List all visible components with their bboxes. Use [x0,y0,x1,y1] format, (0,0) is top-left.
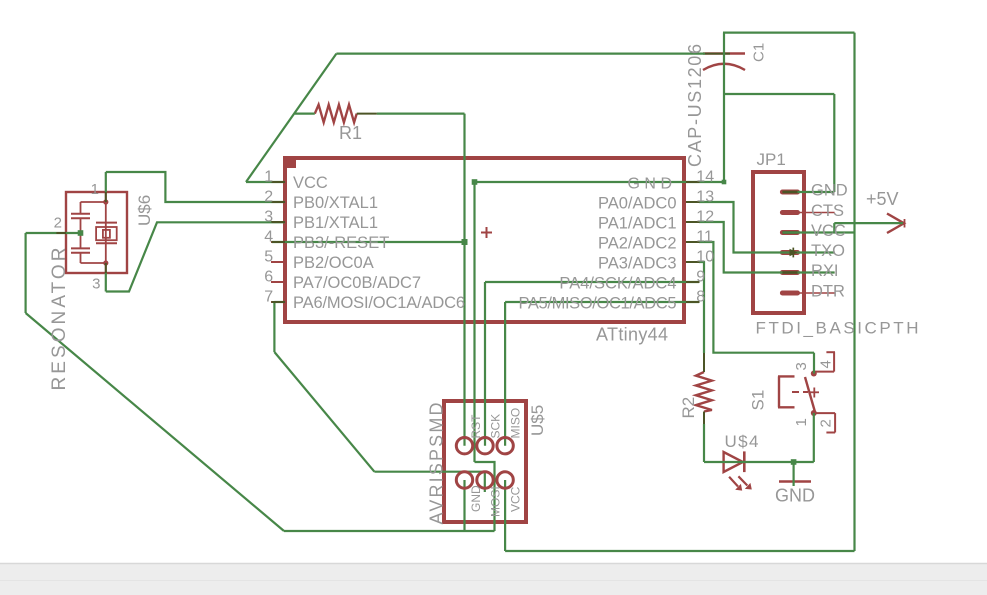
svg-text:PA7/OC0B/ADC7: PA7/OC0B/ADC7 [293,274,421,292]
svg-text:3: 3 [92,276,100,293]
wire GND left vertical riser [25,233,27,313]
wire resonator pin 2 [26,232,81,234]
JP1 pin RXI stub [782,270,834,275]
svg-text:3: 3 [264,209,273,226]
wire GND bottom horizontal [284,530,495,532]
pin 7 stub PA6 [271,301,285,303]
power +5V arrow [887,214,905,234]
svg-text:9: 9 [696,269,705,286]
pin 2 stub PB0 [271,201,285,203]
wire JP1 GND pin lead [783,191,835,193]
wire VCC bottom rail [505,550,854,552]
svg-text:AVRISPSMD: AVRISPSMD [427,403,447,525]
svg-text:C1: C1 [751,43,768,62]
svg-text:1: 1 [264,169,273,186]
svg-text:RXI: RXI [811,262,839,280]
wire overlap right pin stub y182 [686,181,700,183]
wire VCC jog up [833,223,835,232]
wire C1 top to upper rail [723,33,725,54]
pin 10 stub PA3 [684,261,699,263]
svg-text:GND: GND [811,182,848,200]
wire VCC top rail [336,52,705,54]
svg-text:SCK: SCK [489,414,503,439]
wire PA0 to TXO [699,202,835,253]
svg-text:6: 6 [264,269,273,286]
wire MOSI horizontal [374,471,484,473]
wire JP1 GND overlap [782,191,797,194]
wire GND left vertical [473,182,475,462]
wire overlap right pin stub y242 [686,241,700,243]
svg-text:PB0/XTAL1: PB0/XTAL1 [293,194,378,212]
wire GND pin 14 [475,181,725,183]
svg-text:RST: RST [469,414,483,439]
IC U1 polarity mark + [481,227,492,238]
wire VCC diagonal to pin 1 [246,54,336,182]
svg-text:PB3/-RESET: PB3/-RESET [293,234,389,252]
wire SCK vertical [484,282,486,446]
wire overlap left pin stub y242 [272,241,286,243]
svg-text:VCC: VCC [811,222,846,240]
resonator pin stubs [56,192,108,273]
wire GND branch to JP1 [724,93,834,95]
wire MOSI diagonal [274,352,374,472]
wire pin 7 MOSI out [274,301,285,303]
wire R2 bottom lead [703,412,705,425]
wire PA1 to RXI [699,222,835,273]
svg-text:VCC: VCC [293,174,328,192]
switch S1 pin 3 junction [811,371,817,377]
wire JP1 RXI overlap [782,271,797,274]
wire pin 4 PB3/-RESET [272,241,465,243]
svg-text:DTR: DTR [811,283,845,301]
LED U$4 emission arrows [729,476,752,490]
switch S1 [778,376,819,412]
wire S1 pin 3 drop [813,353,815,374]
svg-text:PA4/SCK/ADC4: PA4/SCK/ADC4 [559,275,676,293]
svg-text:U$6: U$6 [135,195,154,226]
svg-text:RESONATOR: RESONATOR [49,248,70,391]
svg-text:11: 11 [696,229,713,246]
wire MISO vertical [504,302,506,446]
svg-text:PB2/OC0A: PB2/OC0A [293,254,374,272]
wire VCC at C1 overlap [705,53,730,55]
wire MISO pin 8 [505,301,699,303]
wire RESET from R1 [377,112,465,114]
svg-text:PA6/MOSI/OC1A/ADC6: PA6/MOSI/OC1A/ADC6 [293,294,465,312]
resonator U$6 box [66,192,127,273]
JP1 pin GND stub [782,190,834,195]
wire ISP GND pad down [463,480,465,531]
resonator internal capacitors [71,202,106,263]
status bar [0,564,987,595]
resistor R2 [696,372,712,412]
svg-text:U$4: U$4 [725,432,759,451]
wire GND symbol drop [792,462,794,486]
wire resonator pin 1 riser [105,172,107,192]
ground symbol GND [779,480,811,483]
wire JP1 VCC overlap [782,231,797,234]
pin 1 stub VCC [271,181,285,183]
ISP pad GND [456,472,472,488]
wire GND down to JP1 pin [833,94,835,192]
wire overlap left pin stub y222 [272,221,286,223]
wire MOSI down [273,302,275,352]
wire MOSI into pad [484,472,486,492]
pin 8 stub PA5 [684,301,699,303]
wire TXO pin arrow [790,249,798,257]
wire JP1 VCC out [783,231,855,233]
wire VCC to ISP pad [504,480,506,551]
wire overlap right pin stub y222 [686,221,700,223]
connector JP1 box [753,172,804,313]
wire overlap resonator pin 3 [105,263,107,273]
LED U$4 [724,451,745,472]
svg-text:S1: S1 [749,390,768,411]
svg-text:CTS: CTS [811,202,844,220]
wire pin 1 VCC [246,181,285,183]
svg-text:CAP-US1206: CAP-US1206 [685,44,705,167]
ISP header U$5 box [444,401,526,522]
ISP pad SCK [477,438,493,454]
pin 4 stub PB3 [271,241,285,243]
switch S1 pin 4 lead [814,352,835,371]
node GND junction C1 [722,180,727,185]
wire RESET vertical [463,114,465,446]
pin 3 stub PB1 [271,221,285,223]
svg-text:PA5/MISO/OC1/ADC5: PA5/MISO/OC1/ADC5 [519,295,677,313]
svg-text:4: 4 [264,229,273,246]
wire XTAL1 route [106,172,285,202]
IC U1 ATtiny44 body [284,156,684,322]
svg-text:U$5: U$5 [528,405,547,436]
resistor R1 [315,105,357,123]
svg-text:PA0/ADC0: PA0/ADC0 [598,195,677,213]
capacitor C1 [703,54,745,71]
node RESET junction [462,239,468,245]
ISP pad VCC [497,472,513,488]
svg-text:MISO: MISO [509,408,523,439]
svg-text:+5V: +5V [866,189,899,209]
wire to +5V arrow [834,222,903,224]
wire PA2 to S1 [699,242,814,353]
wire overlap right pin stub y262 [686,261,700,263]
node resonator pin 2 junction [78,230,84,236]
svg-text:JP1: JP1 [757,150,786,169]
pin 13 stub PA0 [684,201,699,203]
wire S1 pin 1 drop [813,413,815,462]
svg-text:1: 1 [91,181,99,198]
pin 11 stub PA2 [684,241,699,243]
wire GND jog in ISP [475,462,495,531]
wire LED row [704,461,814,463]
svg-text:VCC: VCC [509,486,523,512]
pin 9 stub PA4 [684,281,699,283]
node GND tee chip [472,179,478,185]
wire XTAL2 route [106,222,285,291]
wire C1 bottom vertical [723,54,725,183]
JP1 pin CTS stub [782,210,834,215]
JP1 pin TXO stub [782,250,834,255]
svg-text:R1: R1 [339,123,362,143]
svg-text:14: 14 [696,169,714,186]
svg-text:4: 4 [818,360,835,368]
svg-text:3: 3 [793,362,810,370]
node LED GND junction [791,459,797,465]
svg-text:8: 8 [696,289,705,306]
switch S1 pin 1 junction [811,410,817,416]
wire GND diagonal [26,313,284,531]
wire PA3 to R2 [699,262,704,353]
wire SCK pin 9 [485,281,699,283]
wire R1 right lead overlap [357,113,377,115]
svg-text:TXO: TXO [811,242,845,260]
JP1 pin DTR stub [782,291,834,296]
svg-text:PA2/ADC2: PA2/ADC2 [598,235,677,253]
svg-text:10: 10 [696,249,714,266]
svg-text:2: 2 [264,189,273,206]
svg-text:PB1/XTAL1: PB1/XTAL1 [293,214,378,232]
svg-text:5: 5 [264,249,273,266]
JP1 pin VCC stub [782,230,834,235]
pin 6 stub PA7 [271,281,285,283]
svg-text:12: 12 [696,209,714,226]
wire resonator pin 3 drop [105,273,107,292]
pin 14 stub GND [684,181,699,183]
wire overlap left pin stub y302 [272,301,286,303]
wire R1 left lead [295,112,315,114]
svg-text:GND: GND [627,176,676,193]
svg-text:MOSI: MOSI [489,486,503,517]
svg-text:7: 7 [264,289,273,306]
wire overlap left pin stub y202 [272,201,286,203]
ISP pad MOSI [477,472,493,488]
svg-text:2: 2 [818,419,835,427]
wire VCC upper rail right [723,31,855,33]
svg-text:1: 1 [793,418,810,426]
wire overlap left pin stub y182 [272,181,286,183]
svg-text:PA1/ADC1: PA1/ADC1 [598,215,677,233]
wire overlap resonator pin 2 [56,232,66,234]
wire overlap right pin stub y302 [686,301,700,303]
ISP pad RST [456,438,472,454]
wire R2 top lead [703,353,705,372]
wire VCC right vertical [853,33,855,551]
svg-text:GND: GND [469,485,483,512]
wire overlap resonator pin 1 [105,192,107,202]
ISP pad MISO [497,438,513,454]
pin 5 stub PB2 [271,261,285,263]
pin 12 stub PA1 [684,221,699,223]
resonator internal crystal [96,202,117,263]
wire R2 to LED [703,424,705,462]
svg-text:13: 13 [696,189,714,206]
svg-text:ATtiny44: ATtiny44 [596,325,668,345]
wire overlap right pin stub y282 [686,281,700,283]
svg-text:2: 2 [54,215,62,232]
switch S1 pin 2 lead [814,413,835,432]
wire overlap right pin stub y202 [686,201,700,203]
svg-text:PA3/ADC3: PA3/ADC3 [598,255,677,273]
svg-text:R2: R2 [679,397,698,419]
svg-text:GND: GND [775,486,815,506]
